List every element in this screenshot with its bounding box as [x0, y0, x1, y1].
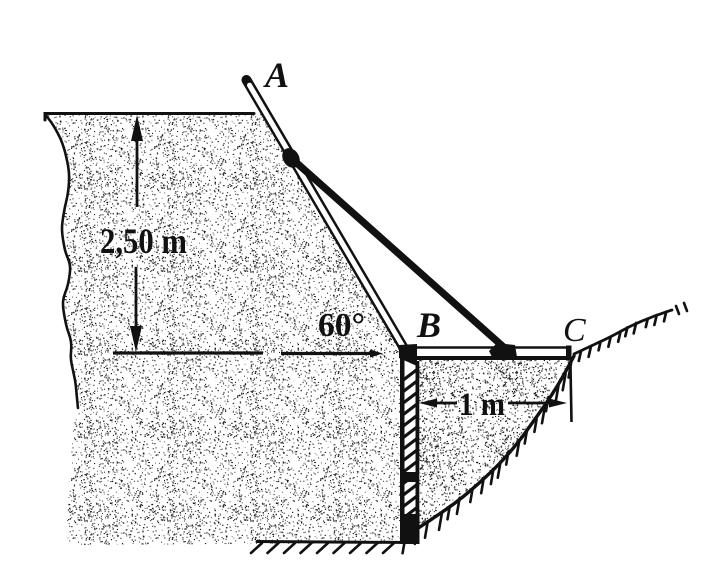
dimension 1 m arrow right — [549, 399, 567, 408]
small arrowhead at line end — [370, 350, 383, 358]
bottom ground hatch ticks — [251, 543, 262, 553]
dimension 1 m arrow left — [419, 399, 437, 408]
angle reference line right segment — [281, 352, 372, 355]
soil region pit (stipple) — [404, 358, 573, 540]
upper slope line — [574, 310, 672, 354]
torn left edge (wavy) — [45, 114, 78, 408]
upper slope hatch ticks — [664, 312, 666, 322]
slope end ticks — [676, 306, 679, 314]
extension line at C — [571, 367, 572, 422]
pit slope line — [404, 356, 574, 539]
svg-text:C: C — [563, 312, 586, 349]
bottom ground line — [257, 542, 410, 543]
soil region left (stipple) — [45, 114, 402, 545]
wall right edge — [416, 361, 420, 543]
joint blob at B — [399, 344, 417, 366]
pole AB interior — [250, 85, 405, 348]
arrowhead up — [131, 115, 143, 141]
angle reference line left segment — [113, 351, 263, 354]
beam BC bottom edge — [406, 356, 571, 360]
svg-text:2,50 m: 2,50 m — [100, 221, 187, 261]
pin at pole — [279, 145, 304, 171]
beam BC top edge — [408, 346, 571, 349]
pole AB outline — [247, 80, 406, 351]
strut-beam connection blob — [489, 343, 517, 357]
wall solid bottom — [400, 514, 420, 544]
dimension 2.50 m vertical line upper — [136, 140, 139, 207]
wall left edge — [400, 350, 405, 543]
wall solid band — [402, 472, 416, 482]
ground top edge — [45, 114, 254, 121]
strut (brace) — [290, 157, 507, 350]
svg-text:60°: 60° — [318, 307, 365, 344]
svg-text:B: B — [416, 305, 441, 345]
dimension 2.50 m vertical line lower — [135, 267, 138, 328]
pit slope hatch ticks — [569, 362, 572, 378]
svg-text:1 m: 1 m — [459, 387, 505, 423]
beam BC interior — [408, 346, 571, 360]
beam end cap at C — [566, 346, 572, 361]
arrowhead down — [130, 326, 142, 352]
wall hatching — [402, 368, 419, 531]
svg-text:A: A — [263, 55, 289, 95]
